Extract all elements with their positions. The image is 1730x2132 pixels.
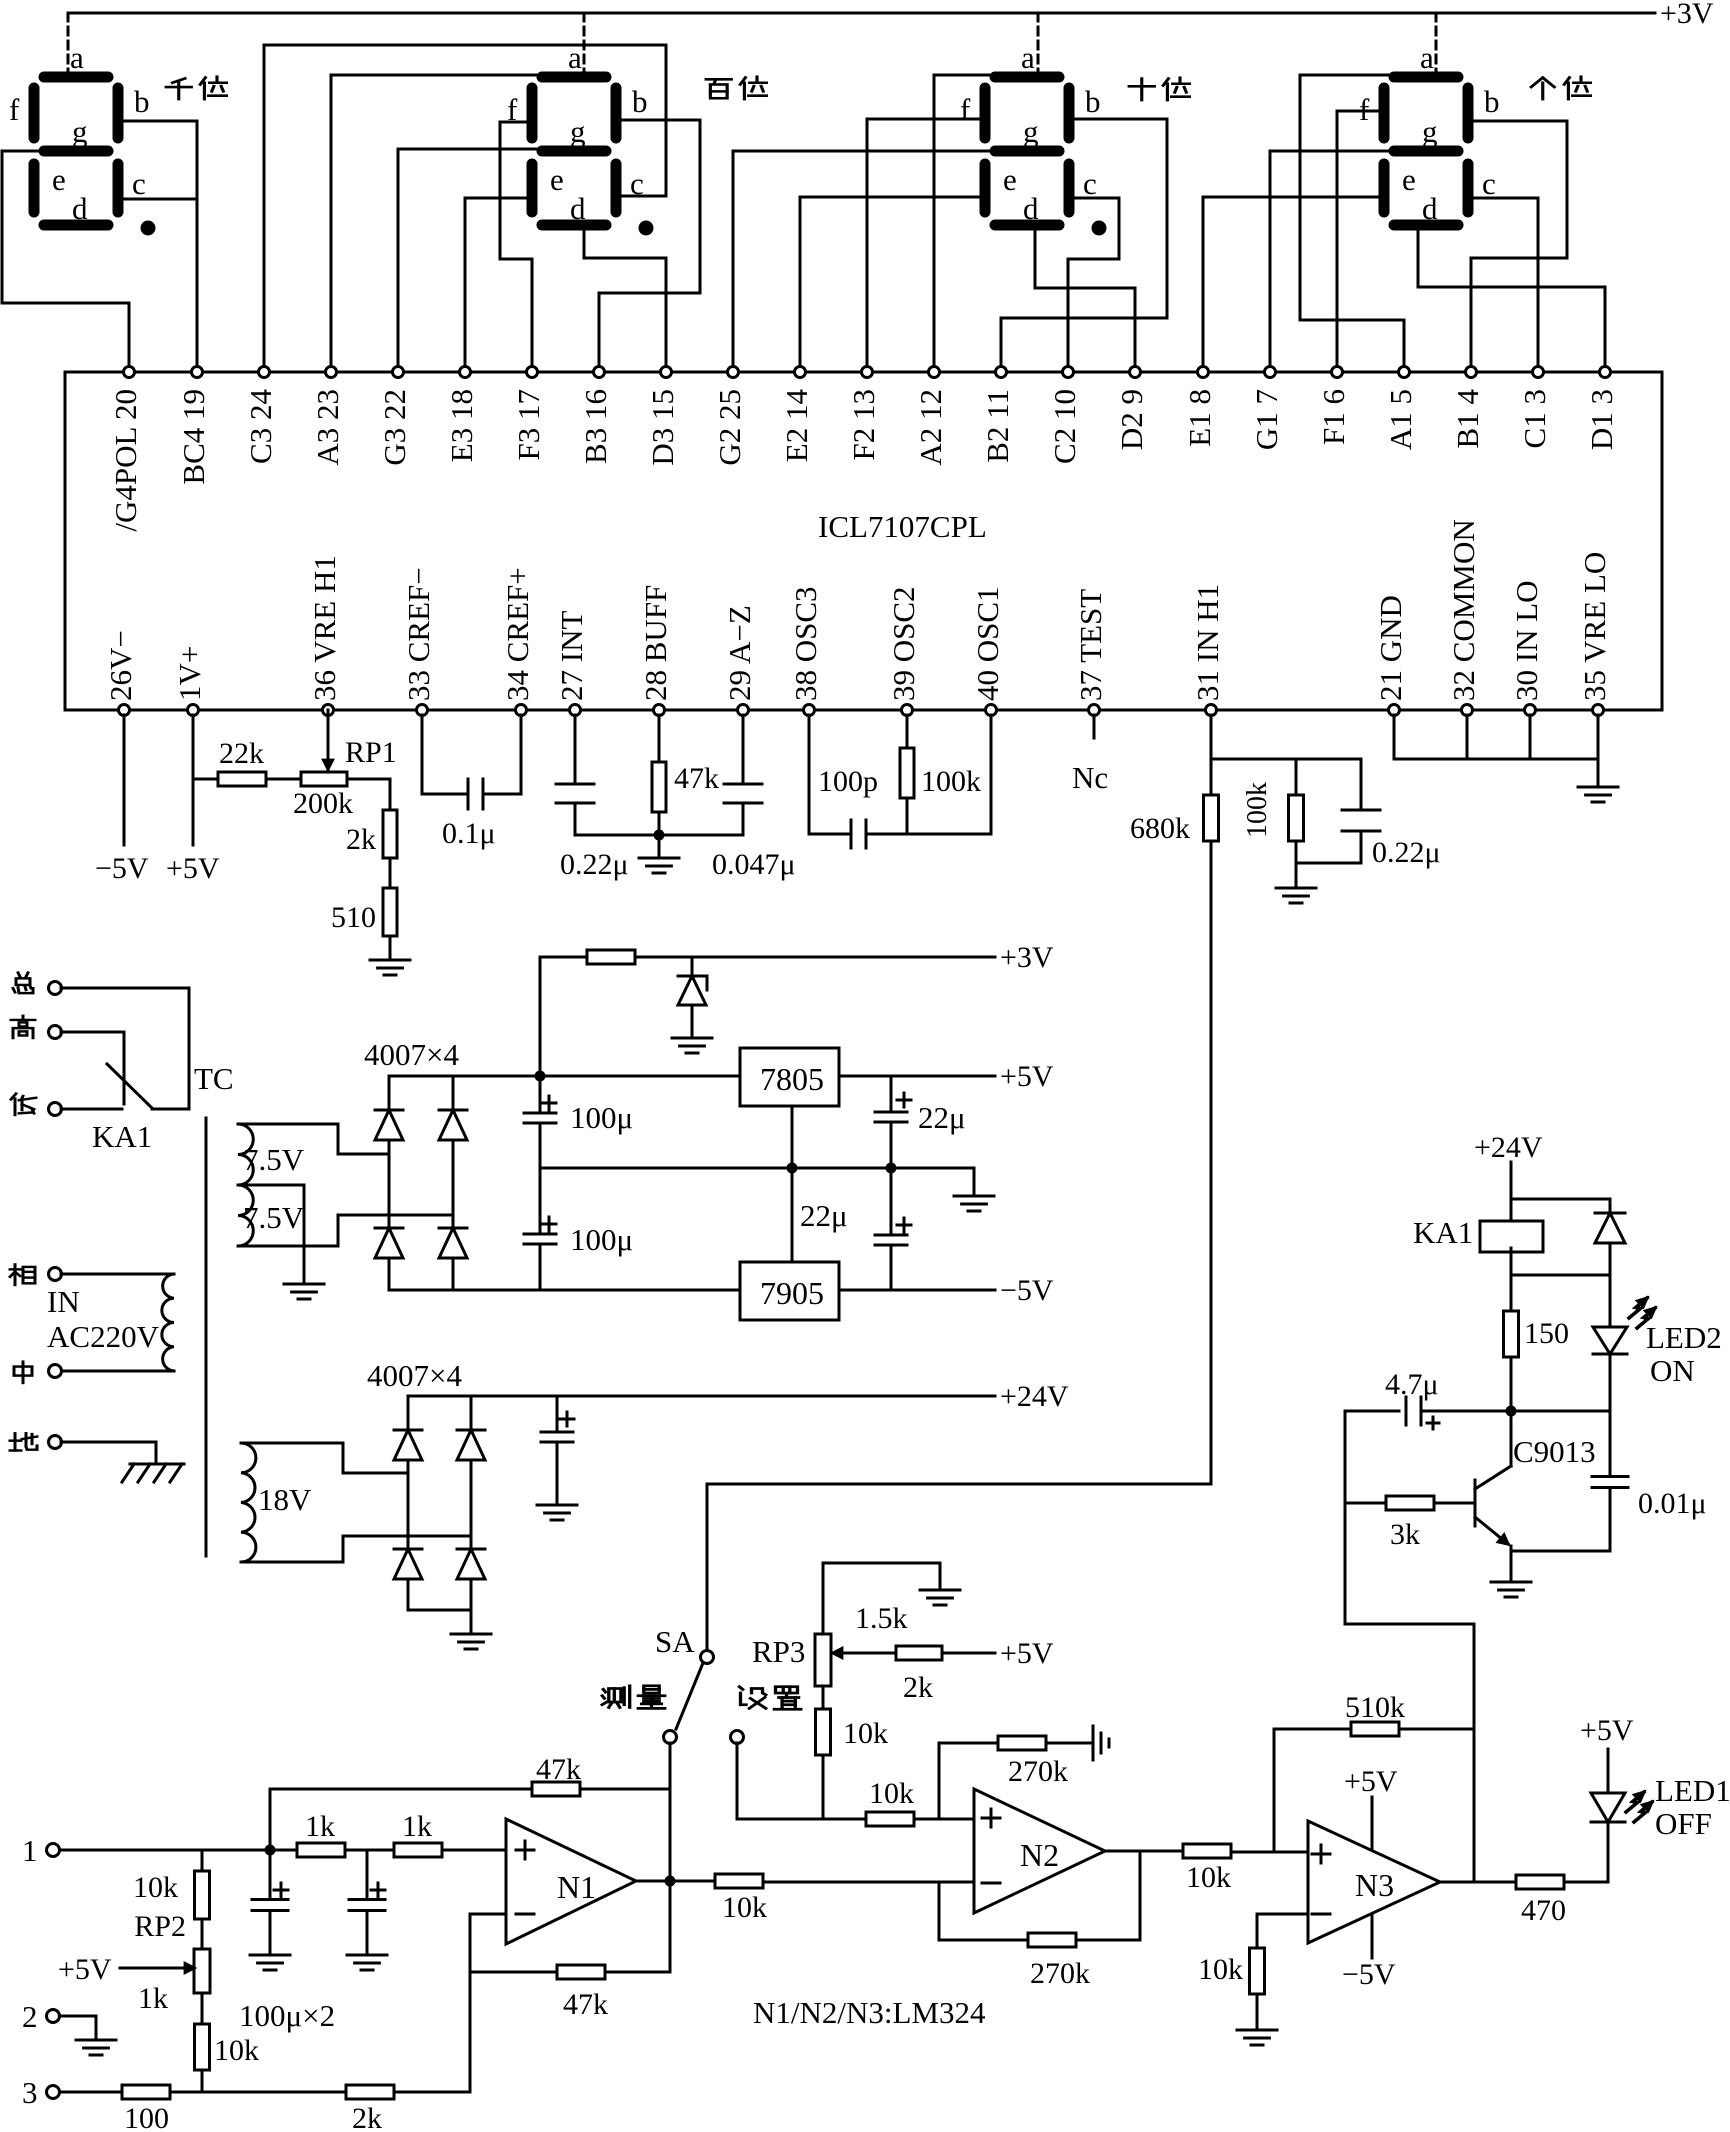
regulator 7805 <box>740 1048 839 1106</box>
svg-text:200k: 200k <box>293 787 353 820</box>
svg-text:G2 25: G2 25 <box>712 389 747 466</box>
svg-text:0.1μ: 0.1μ <box>442 817 496 850</box>
pin 39 OSC2 (bottom) <box>886 586 921 715</box>
pin B2 11 (top) <box>980 367 1015 463</box>
svg-text:+5V: +5V <box>58 1953 112 1986</box>
svg-text:30 IN LO: 30 IN LO <box>1509 580 1544 701</box>
relay coil KA1 <box>1413 1215 1543 1311</box>
svg-text:2: 2 <box>22 1999 38 2034</box>
ground below zener <box>672 1037 712 1040</box>
ground 24V filter cap <box>537 1504 577 1507</box>
display DS1 units 7-segment <box>1359 40 1500 226</box>
wire 18V bottom tap to bridge2 <box>343 1536 471 1562</box>
resistor 10k (N1 out) <box>715 1874 974 1924</box>
wire input 2 to ground <box>60 2016 96 2040</box>
wire N1 bottom 47k branch <box>470 1971 557 1974</box>
terminal 3 <box>22 2075 60 2110</box>
wire +24V to relay <box>1511 1162 1610 1221</box>
wire pin C3 24 to DS3 seg c <box>264 45 666 372</box>
resistor 10k (RP2 top) <box>133 1850 210 1919</box>
pin 33 CREF&#8722; (bottom) <box>401 567 436 715</box>
earth ground symbol <box>122 1464 184 1482</box>
contact SA 测量 <box>664 1731 677 1744</box>
bridge2 left column wire <box>407 1396 410 1610</box>
svg-text:+5V: +5V <box>1344 1765 1398 1798</box>
svg-text:18V: 18V <box>258 1482 312 1517</box>
svg-text:g: g <box>570 114 586 149</box>
display DS4 thousands 7-segment (b c g lit) <box>9 40 156 236</box>
bridge2 top rail wire <box>408 1395 557 1398</box>
wire secondary top tap to bridge1 <box>338 1124 389 1154</box>
diode flyback (relay) <box>1595 1213 1625 1275</box>
svg-text:37 TEST: 37 TEST <box>1073 589 1108 701</box>
wire emitter node <box>1511 1550 1610 1553</box>
svg-text:100p: 100p <box>818 765 878 798</box>
svg-text:a: a <box>1420 40 1434 75</box>
svg-text:RP1: RP1 <box>345 736 397 769</box>
pin E1 8 (top) <box>1182 367 1217 447</box>
svg-text:b: b <box>1484 84 1500 119</box>
svg-text:270k: 270k <box>1008 1755 1068 1788</box>
svg-text:F1 6: F1 6 <box>1316 389 1351 445</box>
wire pin D3 15 to DS3 seg d <box>584 229 666 372</box>
ground input 2 <box>76 2039 116 2042</box>
wire pin1 V+ supply stub <box>192 715 195 845</box>
resistor 47k (N1 bottom) <box>557 1881 670 2021</box>
label 相 <box>10 1264 35 1285</box>
svg-text:+5V: +5V <box>1000 1637 1054 1670</box>
pin C2 10 (top) <box>1047 367 1082 464</box>
resistor +3V dropper <box>587 950 995 964</box>
wire relay bottom join <box>1511 1274 1610 1277</box>
pin D3 15 (top) <box>645 367 680 466</box>
svg-text:KA1: KA1 <box>1413 1215 1473 1250</box>
wire pin C1 3 to DS1 seg c <box>1472 198 1538 372</box>
label 设置 <box>739 1687 800 1710</box>
wire feedback from N3 out to C9013 base node <box>1345 1411 1474 1882</box>
svg-text:a: a <box>70 40 84 75</box>
wire pin A2 12 to DS2 seg a <box>934 75 989 372</box>
LED LED2 <box>1593 1275 1627 1411</box>
label -5V (N3 supply) <box>1342 1914 1396 1991</box>
wire bridge1+ to 7805 <box>540 1075 740 1078</box>
svg-text:c: c <box>132 166 146 201</box>
wire DS4 seg b+c to pin BC4 19 <box>123 121 197 372</box>
svg-text:35 VRE LO: 35 VRE LO <box>1577 552 1612 701</box>
capacitor 0.01u <box>1592 1411 1707 1551</box>
pin 27 INT (bottom) <box>554 611 589 716</box>
svg-text:B3 16: B3 16 <box>578 389 613 464</box>
ground first 100u <box>250 1954 290 1957</box>
wire +3V branch <box>540 957 587 1076</box>
svg-text:1: 1 <box>22 1833 38 1868</box>
resistor 2k (input 3) <box>346 2085 470 2132</box>
resistor 10k (RP2 bottom) <box>195 2024 260 2092</box>
svg-text:7805: 7805 <box>760 1061 824 1097</box>
wire INT/BUFF/A-Z commoning <box>575 834 743 837</box>
svg-text:1k: 1k <box>138 1982 168 2015</box>
svg-text:AC220V: AC220V <box>47 1319 160 1354</box>
diode D2c <box>394 1548 422 1551</box>
pin 35 VRE LO (bottom) <box>1577 552 1612 716</box>
LED LED1 <box>1591 1793 1625 1822</box>
svg-text:e: e <box>1402 162 1416 197</box>
pin G1 7 (top) <box>1249 367 1284 451</box>
diode D1a <box>375 1109 403 1112</box>
svg-text:C3 24: C3 24 <box>243 389 278 464</box>
wire dashed common-anode drop display2 <box>583 13 586 71</box>
bridge2 bottom rail wire <box>408 1609 471 1612</box>
svg-text:22k: 22k <box>219 737 264 770</box>
svg-text:680k: 680k <box>1130 812 1190 845</box>
net +24V rail <box>557 1380 1069 1413</box>
svg-text:LED2: LED2 <box>1646 1320 1722 1355</box>
wire pin B2 11 to DS2 seg b <box>1001 119 1167 372</box>
svg-text:d: d <box>72 191 88 226</box>
svg-text:−5V: −5V <box>1000 1274 1054 1307</box>
wire N3 output <box>1440 1881 1516 1884</box>
ground N3 10k <box>1237 2029 1277 2032</box>
winding TC secondary 18V <box>241 1443 343 1562</box>
svg-text:+3V: +3V <box>1000 941 1054 974</box>
capacitor 0.047u at A-Z pin29 <box>712 715 796 881</box>
svg-text:3k: 3k <box>1390 1518 1420 1551</box>
potentiometer RP3 1.5k <box>752 1563 831 1686</box>
wire LED1 anode to +5V <box>1607 1749 1610 1793</box>
wire GND/COMMON/INLO/VRELO commoning <box>1394 715 1598 787</box>
wire pin E3 18 to DS3 seg e <box>465 198 528 372</box>
svg-text:100μ: 100μ <box>570 1100 633 1135</box>
wire N3 inverting input <box>1257 1914 1308 1948</box>
svg-text:36 VRE H1: 36 VRE H1 <box>307 555 342 701</box>
svg-text:510: 510 <box>331 901 376 934</box>
svg-text:e: e <box>550 162 564 197</box>
wire secondary bottom tap to bridge1 <box>338 1215 453 1246</box>
pin C3 24 (top) <box>243 367 278 464</box>
resistor 3k (base) <box>1345 1496 1475 1551</box>
wire pin31 IN H1 long drop to SA <box>707 715 1211 1650</box>
capacitor 24V filter <box>541 1396 574 1505</box>
terminal 地 <box>49 1436 62 1449</box>
svg-text:d: d <box>1422 191 1438 226</box>
pin D1 3 (top) <box>1584 367 1619 451</box>
winding TC primary AC220V <box>61 1274 174 1371</box>
wire pin F1 6 to DS1 seg f <box>1337 111 1380 372</box>
svg-text:2k: 2k <box>346 823 376 856</box>
svg-text:B1 4: B1 4 <box>1450 389 1485 449</box>
terminal 2 <box>22 1999 60 2034</box>
wiper arrow RP3 from 2k <box>833 1652 896 1655</box>
capacitor 22u (top) <box>875 1076 966 1168</box>
pin 34 CREF+ (bottom) <box>500 567 535 715</box>
ground below 510 <box>370 959 410 962</box>
svg-text:N1: N1 <box>557 1869 596 1905</box>
svg-text:RP2: RP2 <box>134 1910 186 1943</box>
resistor 510k <box>1345 1691 1474 1736</box>
pin BC4 19 (top) <box>176 367 211 485</box>
wire pin A3 23 to DS3 seg a <box>331 75 536 372</box>
svg-text:ICL7107CPL: ICL7107CPL <box>818 509 987 544</box>
wire N1 inverting input <box>470 1914 506 2092</box>
svg-text:47k: 47k <box>563 1988 608 2021</box>
bridge1 left column wire <box>388 1076 391 1290</box>
capacitor 100u (first) <box>252 1850 288 1955</box>
svg-text:0.047μ: 0.047μ <box>712 848 796 881</box>
wire 地 to earth <box>61 1442 156 1464</box>
bridge1 bottom rail wire <box>389 1289 540 1292</box>
svg-text:e: e <box>1003 162 1017 197</box>
svg-text:KA1: KA1 <box>92 1119 152 1154</box>
wire pin G1 7 to DS1 seg g <box>1270 151 1393 372</box>
svg-text:G3 22: G3 22 <box>377 389 412 466</box>
pin 37 TEST (bottom) <box>1073 589 1108 716</box>
svg-text:100k: 100k <box>921 765 981 798</box>
resistor 510 <box>331 888 397 936</box>
zener diode 3V <box>678 957 707 1038</box>
wire LED1 cathode <box>1607 1822 1610 1882</box>
svg-text:g: g <box>72 114 88 149</box>
capacitor 0.22u at INT pin27 <box>556 715 629 881</box>
potentiometer RP2 1k <box>138 1919 210 2028</box>
wire secondary centre tap to ground <box>238 1185 304 1284</box>
svg-text:b: b <box>632 84 648 119</box>
junction mid rail below 7805 <box>787 1163 798 1174</box>
LED2 arrows <box>1629 1298 1655 1328</box>
wire 7905 out -5V rail <box>839 1289 995 1292</box>
resistor 270k (N2 top) <box>998 1736 1093 1788</box>
wire DS4 seg g to pin /G4POL 20 <box>2 151 129 372</box>
svg-text:b: b <box>1085 84 1101 119</box>
wire OSC cap to OSC1 <box>866 715 991 834</box>
wire N1 output <box>636 1880 715 1883</box>
diode D1d <box>439 1227 467 1230</box>
ground analog common <box>1578 786 1618 789</box>
svg-text:7.5V: 7.5V <box>243 1200 305 1235</box>
wire 510 to ground <box>389 936 392 960</box>
diode D2a <box>394 1429 422 1432</box>
wire filter bottoms <box>1296 862 1361 865</box>
wire pin G2 25 to DS2 seg g <box>733 151 994 372</box>
net +3V top rail <box>68 0 1714 30</box>
svg-text:D2 9: D2 9 <box>1114 389 1149 450</box>
svg-text:32 COMMON: 32 COMMON <box>1446 519 1481 701</box>
label 千位 <box>166 77 226 99</box>
wire RP1 to 2k <box>347 779 390 810</box>
label 高 <box>11 1016 35 1038</box>
pin 29 A&#8722;Z (bottom) <box>722 605 757 715</box>
capacitor 4.7u <box>1345 1368 1439 1429</box>
pin C1 3 (top) <box>1517 367 1552 449</box>
svg-text:39 OSC2: 39 OSC2 <box>886 586 921 701</box>
label 测量 <box>602 1686 665 1709</box>
wire 高 contact <box>61 1032 124 1104</box>
wire pin D1 2 to DS1 seg d <box>1418 230 1605 372</box>
switch SA blade <box>676 1663 703 1729</box>
svg-text:/G4POL 20: /G4POL 20 <box>108 389 143 532</box>
junction input node <box>265 1845 276 1856</box>
ground sideways (270k top) <box>1093 1726 1109 1760</box>
svg-text:47k: 47k <box>674 762 719 795</box>
svg-text:N2: N2 <box>1020 1837 1059 1873</box>
pin 1V+ (bottom) <box>172 646 207 716</box>
pin 30 IN LO (bottom) <box>1509 580 1544 715</box>
svg-text:N1/N2/N3:LM324: N1/N2/N3:LM324 <box>753 1995 986 2030</box>
svg-text:a: a <box>1021 40 1035 75</box>
svg-text:F2 13: F2 13 <box>846 389 881 461</box>
svg-text:10k: 10k <box>1186 1861 1231 1894</box>
svg-text:10k: 10k <box>722 1891 767 1924</box>
svg-text:Nc: Nc <box>1072 760 1108 795</box>
ground below IN filter <box>1295 863 1298 888</box>
svg-text:270k: 270k <box>1030 1957 1090 1990</box>
pin 21 GND (bottom) <box>1373 595 1408 715</box>
label 地 <box>10 1433 37 1450</box>
pin E2 14 (top) <box>779 367 814 463</box>
svg-text:1k: 1k <box>305 1810 335 1843</box>
svg-text:D3 15: D3 15 <box>645 389 680 466</box>
pin B3 16 (top) <box>578 367 613 464</box>
diode D2d <box>457 1548 485 1551</box>
junction mid rail below 22u <box>886 1163 897 1174</box>
svg-text:+24V: +24V <box>1474 1131 1543 1164</box>
capacitor 100u (second) <box>349 1850 385 1955</box>
svg-text:−5V: −5V <box>95 852 149 885</box>
pin G2 25 (top) <box>712 367 747 466</box>
wire N2 output <box>1105 1850 1183 1853</box>
svg-text:ON: ON <box>1650 1353 1695 1388</box>
wiper arrow RP2 <box>120 1967 194 1970</box>
bridge1 top rail wire <box>389 1075 540 1078</box>
svg-text:LED1: LED1 <box>1655 1773 1730 1808</box>
svg-text:510k: 510k <box>1345 1691 1405 1724</box>
svg-text:4.7μ: 4.7μ <box>1385 1368 1439 1401</box>
svg-text:IN: IN <box>47 1284 80 1319</box>
svg-text:4007×4: 4007×4 <box>364 1037 459 1072</box>
pin 26V&#8722; (bottom) <box>103 630 138 715</box>
pin D2 9 (top) <box>1114 367 1149 451</box>
wire RP3 top to ground <box>823 1563 940 1590</box>
label Nc at TEST pin37 <box>1072 715 1108 795</box>
resistor 1k (first) <box>297 1810 394 1857</box>
wire 7805 out +5V rail <box>839 1075 995 1078</box>
contact SA 设置 <box>731 1731 744 1744</box>
svg-text:+5V: +5V <box>1000 1060 1054 1093</box>
winding TC secondary 7.5V lower <box>238 1185 338 1246</box>
label 低 <box>11 1094 36 1115</box>
wire input 3 <box>60 2091 122 2094</box>
resistor 47k at BUFF pin28 <box>652 715 719 835</box>
ground mid rail <box>954 1195 994 1198</box>
svg-text:E2 14: E2 14 <box>779 389 814 463</box>
resistor 100 <box>122 2085 346 2132</box>
op-amp N3 <box>1308 1821 1440 1943</box>
svg-text:31 IN H1: 31 IN H1 <box>1190 584 1225 701</box>
svg-text:470: 470 <box>1521 1894 1566 1927</box>
wire 18V top tap to bridge2 <box>343 1443 408 1473</box>
svg-text:100: 100 <box>124 2102 169 2132</box>
resistor 100k (IN filter) <box>1242 759 1304 863</box>
resistor 22k <box>193 737 301 786</box>
op-amp N2 <box>974 1789 1105 1913</box>
display DS3 hundreds 7-segment <box>507 40 654 236</box>
wire dashed common-anode drop display1 <box>67 13 70 71</box>
svg-text:N3: N3 <box>1355 1867 1394 1903</box>
resistor 10k (to N2+) <box>866 1777 974 1826</box>
resistor 100k at OSC2 pin39 <box>900 715 981 834</box>
svg-text:d: d <box>570 191 586 226</box>
svg-text:100k: 100k <box>1242 782 1273 838</box>
pin E3 18 (top) <box>444 367 479 463</box>
resistor 10k (N3-) <box>1198 1948 1265 2030</box>
svg-text:c: c <box>1482 166 1496 201</box>
svg-text:TC: TC <box>194 1061 234 1096</box>
wire collector node <box>1421 1410 1610 1413</box>
pin 32 COMMON (bottom) <box>1446 519 1481 715</box>
wire N2+ to 270k top <box>939 1743 998 1819</box>
svg-text:0.22μ: 0.22μ <box>1372 836 1441 869</box>
svg-text:d: d <box>1023 191 1039 226</box>
svg-text:+3V: +3V <box>1660 0 1714 30</box>
display DS2 tens 7-segment <box>960 40 1107 236</box>
wire pin F2 13 to DS2 seg f <box>867 119 981 372</box>
potentiometer RP1 200k <box>293 710 397 820</box>
svg-text:−5V: −5V <box>1342 1958 1396 1991</box>
svg-text:c: c <box>1083 166 1097 201</box>
ground emitter <box>1491 1581 1531 1584</box>
wire pin G3 22 to DS3 seg g <box>398 149 541 372</box>
svg-text:27 INT: 27 INT <box>554 611 589 701</box>
wire 510k positive feedback <box>1274 1729 1351 1852</box>
wire emitter to ground <box>1510 1551 1513 1582</box>
pin A1 5 (top) <box>1383 367 1418 451</box>
svg-text:34 CREF+: 34 CREF+ <box>500 567 535 701</box>
wire bridge2- to ground <box>470 1610 473 1634</box>
svg-text:28 BUFF: 28 BUFF <box>638 585 673 701</box>
svg-text:2k: 2k <box>352 2102 382 2132</box>
ground transformer centre tap <box>284 1283 324 1286</box>
svg-text:E1 8: E1 8 <box>1182 389 1217 447</box>
svg-text:10k: 10k <box>869 1777 914 1810</box>
svg-text:47k: 47k <box>536 1753 581 1786</box>
capacitor 100u (input bottom) <box>524 1168 633 1290</box>
wire input 1 to N1+ <box>60 1849 297 1852</box>
pin A3 23 (top) <box>310 367 345 466</box>
svg-text:0.22μ: 0.22μ <box>560 848 629 881</box>
svg-text:10k: 10k <box>133 1871 178 1904</box>
resistor 10k (N2 out) <box>1183 1844 1308 1894</box>
svg-text:2k: 2k <box>903 1671 933 1704</box>
wire 2k to 510 <box>389 858 392 888</box>
svg-text:10k: 10k <box>843 1717 888 1750</box>
diode D1c <box>375 1227 403 1230</box>
wire pin F3 17 to DS3 seg f <box>500 122 532 372</box>
terminal 相 <box>49 1268 62 1281</box>
wire IN H1 branch to filter <box>1211 758 1361 761</box>
junction below 47k <box>654 830 665 841</box>
switch KA1 contact blade <box>107 1064 152 1108</box>
label 中 <box>14 1362 32 1383</box>
terminal 高 <box>49 1026 62 1039</box>
wire RP3 bottom to 10k <box>822 1686 825 1710</box>
wire pin26 V- supply stub <box>123 715 126 845</box>
pin F1 6 (top) <box>1316 367 1351 446</box>
diode D2b <box>457 1429 485 1432</box>
wire dashed common-anode drop display4 <box>1435 13 1438 71</box>
svg-text:22μ: 22μ <box>918 1100 966 1135</box>
svg-text:10k: 10k <box>1198 1953 1243 1986</box>
transformer TC core <box>205 1118 208 1556</box>
wire pin A1 5 to DS1 seg a <box>1300 75 1404 372</box>
